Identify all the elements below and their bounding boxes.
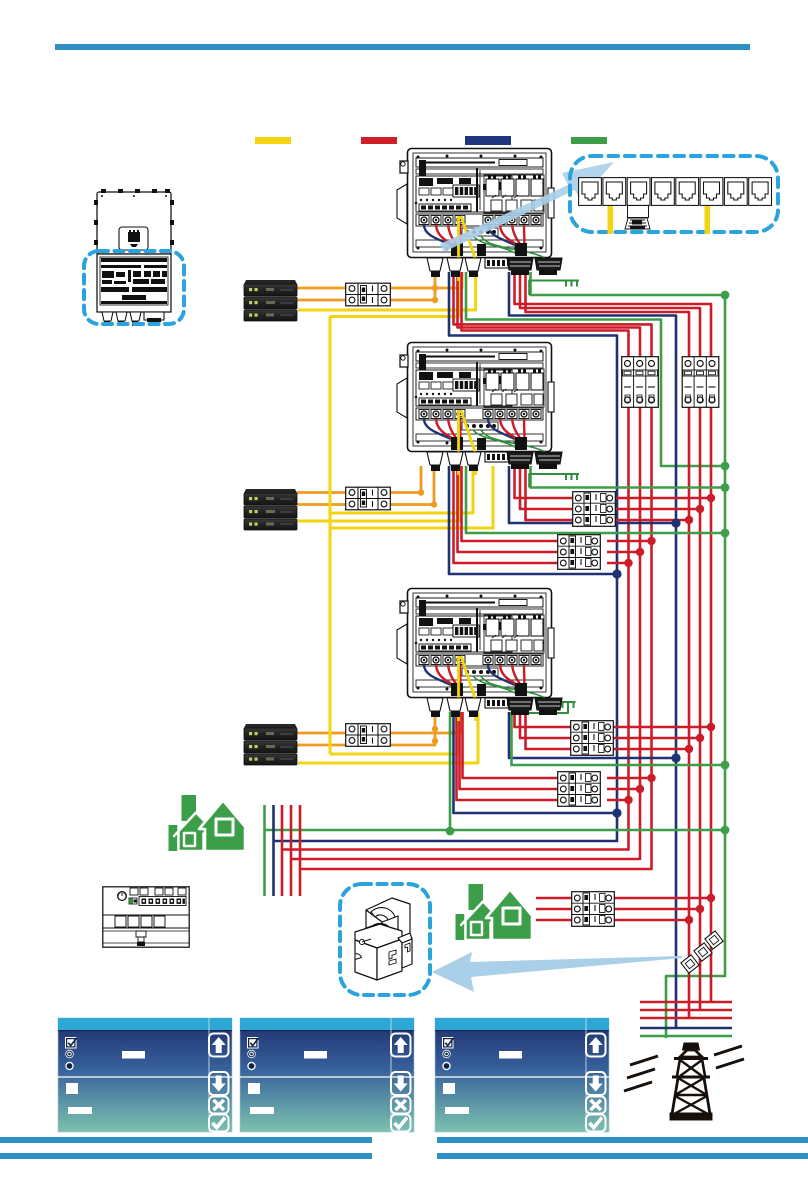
AC breaker inverter3 grid Q3G xyxy=(571,721,614,756)
node N bus joints xyxy=(671,518,680,527)
wire battery2 negative xyxy=(297,466,434,505)
wire battery3 negative xyxy=(297,712,435,745)
RJ45 port 7 xyxy=(724,178,747,206)
RJ45 port 2 xyxy=(603,178,626,206)
wire N inverter1 grid bus xyxy=(509,272,676,1028)
battery stack B2 xyxy=(244,489,297,530)
RJ45 callout box xyxy=(570,156,778,232)
DC breaker QF3 xyxy=(346,724,391,747)
grid mesh L2 xyxy=(640,1009,732,1012)
CT clamp CT2 on grid L2 xyxy=(694,943,712,961)
wire BMS inverter2 to battery2 xyxy=(298,466,460,521)
wire L1 inverter3 load in xyxy=(463,712,562,778)
wire house feeder L3 vertical xyxy=(299,805,302,896)
wire L3 inverter2 grid in xyxy=(526,466,577,520)
grid mesh PE xyxy=(640,1035,732,1038)
node battery3 junctions xyxy=(432,726,438,732)
RJ45 port 5 xyxy=(676,178,699,206)
wire L1 inverter1 load bus xyxy=(300,272,652,869)
wire battery1 negative xyxy=(297,272,435,300)
wire N inverter3 grid xyxy=(509,712,676,758)
RJ45 port 4 xyxy=(652,178,675,206)
yellow patch cable stub port 6 xyxy=(705,200,711,234)
transmission tower xyxy=(624,1043,744,1120)
RJ45 port 8 xyxy=(749,178,772,206)
LCD screen 2 xyxy=(240,1018,414,1132)
earth riser inverter3 xyxy=(512,702,569,713)
wire PE inverter3 grid xyxy=(512,712,726,765)
CT detail drawing xyxy=(355,898,412,980)
legend red bar xyxy=(361,137,397,144)
wire L3 inverter3 grid in xyxy=(526,712,575,749)
wire L2 house2 in xyxy=(536,908,575,911)
energy meter xyxy=(103,887,189,947)
wire L2 house2 out xyxy=(611,908,700,911)
small inverter unit (left reference) xyxy=(94,189,174,326)
earth riser inverter1 xyxy=(529,281,566,296)
battery stack B3 xyxy=(244,724,297,765)
footer rule bottom-left xyxy=(0,1153,372,1159)
grid mesh L3 xyxy=(640,1017,732,1020)
grid mesh N xyxy=(640,1027,732,1030)
CT clamp CT3 on grid L3 xyxy=(681,955,699,973)
wire BMS inverter3 to battery3 xyxy=(298,712,478,763)
wire L1 inverter2 load in xyxy=(462,466,562,541)
RJ45 plug below third port xyxy=(625,206,650,230)
wire PE load to houses xyxy=(265,829,726,832)
wire N inverter3 load xyxy=(454,712,618,813)
house load 2 xyxy=(456,884,535,940)
wire BMS inverter1 to battery1 xyxy=(298,272,476,310)
wire L3 inverter2 grid out xyxy=(610,519,689,522)
wire house feeder PE vertical xyxy=(263,805,266,896)
AC breaker inverter2 load Q2L xyxy=(558,535,601,570)
dashed callout around small inverter connection area xyxy=(84,251,184,324)
arrow from inverter1 comm to RJ45 callout xyxy=(440,162,614,252)
AC breaker load bus QL xyxy=(622,357,659,408)
wire battery2 positive xyxy=(297,466,421,493)
wire L1 inverter3 grid out xyxy=(610,726,711,729)
wire L1 inverter1 grid bus xyxy=(515,272,712,1002)
footer rule top-left xyxy=(0,1137,372,1143)
wire PE inverter1 grid to PE bus xyxy=(531,272,726,1038)
wire L3 inverter1 load bus xyxy=(282,272,629,850)
node battery2 junctions xyxy=(418,489,424,495)
node L bus joints inverter2 xyxy=(707,494,715,502)
wire L1 inverter2 grid in xyxy=(515,466,577,498)
wire L2 inverter3 grid in xyxy=(520,712,574,738)
ground symbol inverter2 xyxy=(564,474,579,480)
AC breaker inverter2 grid Q2G xyxy=(573,492,616,527)
inverter U2 xyxy=(397,343,562,476)
wire PE inverter2 grid xyxy=(531,466,726,488)
wire L2 inverter1 load bus xyxy=(291,272,640,859)
ground symbol inverter1 xyxy=(564,281,579,287)
legend yellow bar xyxy=(255,137,291,144)
inverter U3 xyxy=(397,589,562,722)
LCD screen 3 xyxy=(435,1018,609,1132)
legend green bar xyxy=(571,137,607,144)
wire L1 inverter2 grid out xyxy=(610,497,711,500)
wire house feeder L1 vertical xyxy=(281,805,284,896)
wire L1 house2 in xyxy=(536,897,575,900)
wire L1 inverter3 load out xyxy=(607,777,652,780)
wire L3 inverter3 load out xyxy=(607,799,629,802)
earth riser inverter2 xyxy=(529,474,566,488)
wire PE inverter1 load via x661 xyxy=(466,272,725,466)
wire comm spine yellow xyxy=(329,316,332,754)
wire L2 inverter2 load out xyxy=(607,551,640,554)
wire L2 inverter1 grid bus xyxy=(520,272,700,1010)
wire L2 inverter2 grid out xyxy=(610,508,700,511)
AC breaker house2 Q4 xyxy=(572,892,615,927)
wire L2 inverter3 load out xyxy=(607,788,640,791)
wire battery3 positive xyxy=(297,712,462,733)
wire L3 house2 in xyxy=(536,919,575,922)
footer rule bottom-right xyxy=(437,1153,808,1159)
wire L2 inverter2 grid in xyxy=(520,466,576,509)
AC breaker inverter3 load Q3L xyxy=(558,772,601,807)
wire battery1 positive xyxy=(297,272,462,288)
header rule xyxy=(55,44,750,50)
node PE bus joints xyxy=(721,291,730,300)
RJ45 port 6 xyxy=(700,178,723,206)
wire PE inverter3 load xyxy=(449,712,452,831)
wire L2 inverter2 load in xyxy=(458,466,562,552)
wire L1 inverter3 grid in xyxy=(515,712,575,727)
battery stack B1 xyxy=(244,280,297,321)
wire N inverter1 load bus xyxy=(274,272,618,841)
yellow patch cable stub port 2 xyxy=(608,200,614,234)
wire L1 house2 out xyxy=(611,897,711,900)
wire L3 house2 out xyxy=(611,919,689,922)
node L bus joints inverter3 xyxy=(707,723,715,731)
RJ45 port 1 xyxy=(579,178,602,206)
wire house feeder N vertical xyxy=(272,805,275,896)
footer rule top-right xyxy=(437,1137,808,1143)
node L bus joints house2 xyxy=(707,894,715,902)
DC breaker QF1 xyxy=(346,283,391,306)
wire L2 inverter3 load in xyxy=(460,712,562,789)
wire N inverter2 load xyxy=(449,466,617,574)
wire L3 inverter1 grid bus xyxy=(526,272,690,1018)
CT detail callout box xyxy=(340,884,430,995)
wire L3 inverter2 load in xyxy=(454,466,562,563)
wire N inverter2 grid xyxy=(509,466,676,523)
CT clamp CT1 on grid L1 xyxy=(705,931,723,949)
inverter U1 xyxy=(397,149,562,282)
AC breaker grid bus QG xyxy=(682,357,719,408)
wire comm inverter3 to spine xyxy=(330,712,459,754)
wire L3 inverter3 grid out xyxy=(610,748,689,751)
DC breaker QF2 xyxy=(346,487,391,510)
grid mesh L1 xyxy=(640,1001,732,1004)
wire comm inverter2 second port xyxy=(330,466,493,528)
wire L1 inverter2 load out xyxy=(607,540,652,543)
RJ45 port 3 xyxy=(627,178,650,206)
ground symbol inverter3 xyxy=(561,702,576,708)
wire L2 inverter3 grid out xyxy=(610,737,700,740)
wire L3 inverter2 load out xyxy=(607,562,629,565)
wire L3 inverter3 load in xyxy=(457,712,562,800)
callout arrow to CT detail xyxy=(432,952,682,992)
wire comm inverter2 to spine xyxy=(330,466,473,513)
junction dots xyxy=(418,285,730,924)
wire comm inverter1 to spine xyxy=(330,272,459,317)
legend blue bar xyxy=(465,136,511,145)
node battery1 junctions xyxy=(432,285,438,291)
wire PE inverter2 load xyxy=(466,466,725,533)
house load 1 xyxy=(169,795,248,851)
wire house feeder L2 vertical xyxy=(290,805,293,896)
LCD screen 1 xyxy=(58,1018,232,1132)
